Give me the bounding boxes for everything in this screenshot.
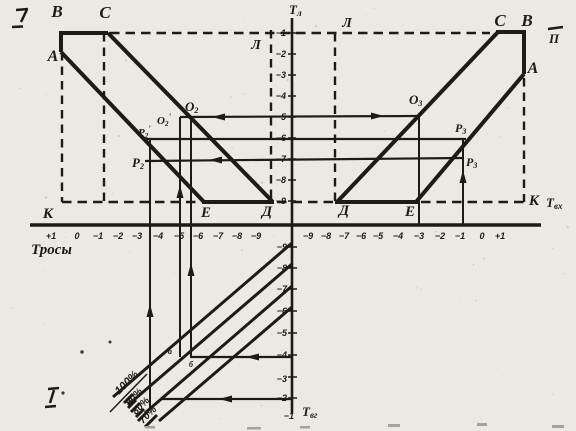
svg-text:В: В — [520, 11, 532, 30]
arrowhead up on x180 vertical — [177, 185, 184, 198]
svg-text:0: 0 — [479, 231, 484, 241]
svg-text:−5: −5 — [373, 231, 384, 241]
svg-text:−7: −7 — [276, 154, 287, 164]
svg-text:+1: +1 — [46, 231, 56, 241]
svg-text:−7: −7 — [213, 231, 224, 241]
caption remnant marks bottom — [247, 427, 261, 430]
svg-text:−3: −3 — [414, 231, 424, 241]
svg-text:−5: −5 — [276, 112, 287, 122]
left trapezoid diagonal C-D — [108, 33, 272, 201]
arrowhead up on x191 vertical — [188, 263, 195, 276]
left trapezoid top B-C and side B-A — [61, 33, 108, 52]
svg-text:−4: −4 — [393, 231, 403, 241]
svg-text:−6: −6 — [277, 306, 288, 316]
svg-text:−2: −2 — [277, 393, 287, 403]
svg-text:−4: −4 — [277, 350, 287, 360]
transfer horizontal line y117 O2-O3 — [180, 116, 419, 117]
transfer horizontal line y139 P2'-P3 — [145, 138, 466, 140]
svg-text:0: 0 — [74, 231, 79, 241]
svg-text:Л: Л — [341, 16, 352, 31]
vertical drop from O3 x419 — [418, 116, 420, 226]
right trapezoid diagonal D-C — [337, 32, 498, 202]
svg-text:В: В — [50, 2, 62, 21]
svg-text:−1: −1 — [276, 28, 286, 38]
vertical drop from P2' x150 — [149, 139, 151, 408]
svg-text:−2: −2 — [435, 231, 445, 241]
dashed box bottom right segment — [421, 201, 524, 204]
right trapezoid top C-B and side B-A — [496, 32, 524, 74]
thin leader line under percent labels — [110, 374, 147, 412]
arrowhead right on y116 line — [371, 113, 384, 120]
vertical drop from P3 x463 — [462, 140, 464, 226]
lower vertical axis Tvg — [291, 226, 294, 414]
right trapezoid diagonal A-E — [416, 74, 524, 202]
lower horizontal line y357 — [190, 356, 292, 358]
svg-text:−4: −4 — [276, 91, 286, 101]
dashed vertical right box edge — [523, 78, 525, 202]
lower horizontal line y399 — [160, 398, 292, 400]
svg-text:−7: −7 — [339, 231, 350, 241]
ticks on lower axis — [288, 247, 297, 398]
diagonal 80% line — [145, 286, 292, 413]
svg-text:−8: −8 — [321, 231, 331, 241]
svg-text:−1: −1 — [455, 231, 465, 241]
speck 3 — [61, 391, 64, 394]
svg-text:−7: −7 — [277, 284, 288, 294]
svg-text:−5: −5 — [277, 328, 288, 338]
svg-text:Д: Д — [260, 204, 273, 220]
main horizontal axis Tvx — [30, 223, 541, 226]
arrowhead up on x150 vertical — [147, 304, 154, 317]
svg-text:А: А — [47, 48, 59, 65]
roman numeral III bottom-left — [45, 388, 59, 407]
ticks on central upper axis — [288, 33, 296, 201]
svg-text:−9: −9 — [303, 231, 313, 241]
arrowhead up on x463 vertical — [460, 170, 467, 183]
svg-text:−9: −9 — [276, 196, 286, 206]
svg-text:−4: −4 — [153, 231, 163, 241]
arrowhead left on y161 line — [209, 157, 222, 164]
svg-text:А: А — [527, 60, 539, 77]
left trapezoid bottom E-D — [202, 200, 274, 204]
dashed vertical under left C — [103, 33, 105, 202]
vertical drop x191 — [190, 118, 192, 358]
svg-text:−9: −9 — [277, 242, 287, 252]
arrowhead left on y357 line — [246, 354, 259, 361]
svg-text:−2: −2 — [276, 49, 286, 59]
svg-text:Л: Л — [250, 38, 261, 53]
svg-text:К: К — [42, 206, 54, 222]
svg-text:−3: −3 — [277, 374, 287, 384]
svg-text:−8: −8 — [232, 231, 242, 241]
diagonal 90% line — [128, 264, 292, 405]
central vertical axis Tl upper — [291, 18, 294, 226]
svg-text:Е: Е — [200, 205, 211, 221]
dashed vertical line L left — [270, 30, 272, 201]
roman numeral II top-right overline — [548, 27, 563, 29]
dashed vertical left box edge — [61, 52, 63, 202]
svg-text:−8: −8 — [276, 175, 286, 185]
svg-text:−6: −6 — [276, 133, 287, 143]
svg-text:Е: Е — [404, 204, 415, 220]
svg-text:Д: Д — [337, 203, 350, 219]
speck 1 — [80, 350, 83, 353]
svg-text:−1: −1 — [284, 411, 294, 421]
dashed box top line — [110, 32, 490, 35]
svg-text:−1: −1 — [93, 231, 103, 241]
transfer horizontal line y161 P2-P3 — [145, 158, 463, 161]
left trapezoid diagonal A-E — [61, 52, 204, 202]
svg-text:−9: −9 — [251, 231, 261, 241]
svg-text:С: С — [494, 11, 506, 30]
speck 2 — [109, 341, 112, 344]
svg-text:С: С — [99, 3, 111, 22]
svg-text:−2: −2 — [113, 231, 123, 241]
svg-text:П: П — [548, 31, 560, 46]
svg-text:−8: −8 — [277, 263, 287, 273]
svg-text:−3: −3 — [132, 231, 142, 241]
arrowhead left on y399 line — [219, 396, 232, 403]
svg-text:−5: −5 — [174, 231, 185, 241]
arrowhead left on y117 line — [212, 114, 225, 121]
svg-text:−6: −6 — [356, 231, 367, 241]
svg-text:−6: −6 — [193, 231, 204, 241]
roman numeral I top-left — [12, 9, 28, 27]
svg-text:а: а — [168, 347, 172, 356]
svg-text:−3: −3 — [276, 70, 286, 80]
diagonal 70% line — [159, 307, 292, 421]
dashed box bottom left segment — [62, 201, 199, 204]
svg-text:К: К — [528, 193, 540, 209]
vertical drop from O2 x180 — [179, 117, 181, 357]
paper noise speckles — [366, 15, 367, 16]
dashed vertical line L right — [334, 33, 336, 201]
dashed box bottom center segment — [277, 201, 333, 204]
right trapezoid bottom D-E — [335, 200, 418, 204]
svg-text:+1: +1 — [495, 231, 505, 241]
diagonal 100% line — [113, 243, 292, 397]
percent cluster smudge marks — [124, 394, 157, 427]
